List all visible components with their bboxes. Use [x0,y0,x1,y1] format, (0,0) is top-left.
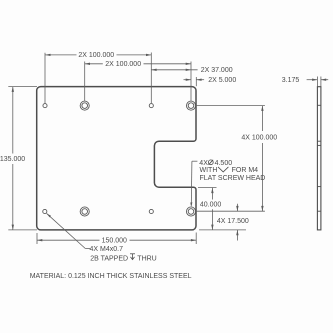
hole H1 tapped top-left [43,104,47,108]
dimension 150.000 extension line right [195,233,197,245]
extension line hole row bottom right [196,210,265,212]
hole H4 tapped bottom-right [149,209,153,213]
plate outline (front view) [37,87,196,230]
dimension 3.175 extension lines [317,77,321,87]
dimension row2 arrow right [186,63,191,65]
dimension 150.000 extension line left [36,233,38,244]
dimension row3 2X 37.000 line [151,69,197,71]
svg-text:2X 100.000: 2X 100.000 [105,61,141,68]
extension line notch bottom right [198,187,217,189]
svg-text:MATERIAL: 0.125 INCH THICK STA: MATERIAL: 0.125 INCH THICK STAINLESS STE… [30,273,192,280]
leader tapped note arrow [47,214,51,218]
dimension row1 arrow left [45,54,51,56]
extension line hole H1 up [44,53,46,104]
leader countersink note arrow [190,202,192,207]
svg-text:4X M4x0.7: 4X M4x0.7 [90,246,124,253]
dimension 135.000 arrow down [12,225,14,230]
svg-text:4X 100.000: 4X 100.000 [241,134,277,141]
side view plate (right) [317,87,321,230]
extension line hole C1 up [84,62,86,101]
dimension 40.000 arrow down [211,225,213,230]
hole C2 countersunk top-right (inner) [188,103,194,109]
dimension row2 arrow left [85,63,90,65]
dimension 150.000 arrow right [191,239,196,241]
dimension 150.000 line [37,239,196,241]
dimension row1 arrow right [146,54,151,56]
extension line hole H2 up [150,53,152,104]
dimension 40.000 vertical line [211,188,213,230]
dimension 135.000 extension line bottom [8,229,37,231]
dimension row4 2X 5.000 left arrow [184,79,192,81]
dimension 4X 100.000 arrow up [261,106,263,111]
note 4X dia 4.500 line1 [199,160,232,167]
hole C4 countersunk bottom-right (outer) [186,207,195,216]
hole C1 countersunk top (outer) [80,101,89,110]
dimension 4X 17.500 bottom arrow (points up) [236,230,238,241]
hole C3 countersunk bottom-left (inner) [82,209,88,215]
hole H2 tapped top-right [149,104,153,108]
svg-text:150.000: 150.000 [102,238,127,245]
dimension 3.175 left arrow [307,79,318,81]
note line2 WITH csk FOR M4 [200,167,259,174]
hole C2 countersunk top-right (outer) [186,101,195,110]
svg-text:2X 37.000: 2X 37.000 [201,67,233,74]
svg-text:THRU: THRU [137,255,156,262]
dimension row3 arrow left [151,69,156,71]
svg-text:2X 5.000: 2X 5.000 [208,77,236,84]
svg-text:2B TAPPED: 2B TAPPED [90,255,128,262]
svg-text:4X 17.500: 4X 17.500 [217,218,249,225]
svg-text:FOR M4: FOR M4 [232,167,259,174]
svg-text:WITH: WITH [200,167,218,174]
dimension 135.000 arrow up [12,87,14,92]
side view tick marks [317,105,321,211]
extension line hole row top right [196,105,265,107]
svg-text:40.000: 40.000 [200,202,222,209]
svg-text:135.000: 135.000 [0,156,25,163]
dimension 4X 100.000 arrow down [261,206,263,211]
hole C1 countersunk top (inner) [82,103,88,109]
dimension row3 arrow right [186,69,191,71]
note 2B TAPPED depth THRU [90,254,157,262]
extension line bottom edge right [199,229,246,231]
dimension row2 2X 100.000 line [85,63,191,65]
dimension row1 2X 100.000 line left part [45,54,151,56]
svg-text:3.175: 3.175 [282,77,300,84]
dimension 135.000 vertical line [12,87,14,230]
dimension 40.000 arrow up [211,188,213,193]
leader tapped note [47,213,90,248]
svg-text:2X 100.000: 2X 100.000 [78,52,114,59]
dimension 135.000 extension line top [8,86,37,88]
hole H3 tapped bottom-left [43,209,47,213]
hole C4 countersunk bottom-right (inner) [188,209,194,215]
dimension 3.175 right arrow [321,79,328,81]
svg-text:FLAT SCREW HEAD: FLAT SCREW HEAD [200,175,266,182]
dimension 4X 100.000 vertical line [261,106,263,212]
extension line hole C2 up [190,62,192,101]
dimension 4X 17.500 top arrow (points down) [236,204,238,211]
dimension 150.000 arrow left [37,239,42,241]
hole C3 countersunk bottom-left (outer) [80,207,89,216]
extension line right edge up [195,77,197,86]
leader countersink note vertical [191,161,197,205]
dimension row4 2X 5.000 right arrow [196,79,204,81]
